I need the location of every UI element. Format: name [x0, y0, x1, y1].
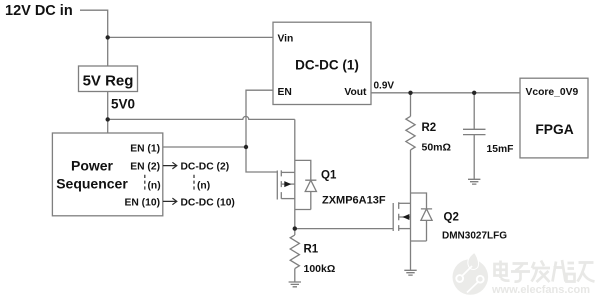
diode D2 body of Q2: [411, 193, 433, 241]
wire 5V0 horizontal with hop over EN line: [108, 116, 295, 119]
svg-text:Vin: Vin: [278, 34, 294, 45]
svg-text:Q1: Q1: [321, 170, 337, 182]
transistor Q1 channel: [280, 170, 282, 198]
watermark elecfans logo: [453, 253, 489, 295]
Power Sequencer box: [52, 133, 162, 216]
svg-text:EN (2): EN (2): [130, 161, 160, 172]
capacitor C bottom lead: [473, 135, 475, 180]
transistor Q1 body tap: [281, 183, 295, 185]
ground below Q2: [404, 270, 416, 275]
svg-text:Vout: Vout: [344, 87, 367, 98]
svg-text:12V DC in: 12V DC in: [5, 3, 73, 19]
svg-text:EN (10): EN (10): [125, 197, 160, 208]
wire Q1 drain to Q2 gate: [295, 228, 393, 230]
svg-text:15mF: 15mF: [487, 144, 514, 155]
svg-text:DC-DC (1): DC-DC (1): [295, 58, 359, 73]
svg-text:50mΩ: 50mΩ: [422, 141, 451, 153]
capacitor C plates: [463, 129, 486, 134]
node EN(1) junction: [244, 145, 248, 149]
node 5V0 junction: [106, 117, 110, 121]
wire Vin branch: [108, 36, 273, 38]
wire 5V Reg output down to Power Sequencer: [107, 92, 109, 134]
svg-text:DC-DC (10): DC-DC (10): [181, 197, 235, 208]
transistor Q1 source tap: [281, 198, 295, 200]
transistor Q2 arrow: [402, 214, 409, 220]
svg-text:Power: Power: [71, 158, 114, 174]
svg-text:FPGA: FPGA: [535, 122, 573, 137]
arrow to DC-DC (10): [163, 198, 177, 205]
svg-text:Q2: Q2: [444, 212, 459, 224]
transistor Q1 drain tap: [281, 171, 295, 173]
svg-text:EN: EN: [278, 87, 292, 98]
wire EN (1): [163, 146, 246, 148]
wire R1 to ground: [294, 269, 296, 282]
svg-text:0.9V: 0.9V: [374, 80, 395, 91]
svg-text:Vcore_0V9: Vcore_0V9: [526, 87, 579, 98]
node 12V/Vin junction: [106, 35, 110, 39]
transistor Q2 channel: [398, 202, 400, 231]
svg-text:DC-DC (2): DC-DC (2): [181, 161, 230, 172]
dashed ellipsis line outside Power Sequencer: [193, 175, 195, 192]
wire Vout 0.9V rail: [371, 92, 520, 94]
svg-text:(n): (n): [197, 180, 210, 191]
svg-text:R2: R2: [422, 122, 437, 134]
capacitor C 15mF top lead: [473, 93, 475, 130]
watermark chinese text 电子发烧友 (approximated strokes): [495, 260, 595, 282]
FPGA box: [520, 78, 588, 158]
svg-text:ZXMP6A13F: ZXMP6A13F: [322, 194, 386, 206]
transistor Q1 arrow: [284, 181, 291, 187]
5V regulator box: [79, 66, 138, 92]
wire R2 bottom to Q2 drain: [410, 150, 412, 270]
node R2 top junction: [408, 91, 412, 95]
wire 12V DC in to top node: [80, 10, 108, 66]
transistor Q2 body tap: [399, 216, 411, 218]
transistor Q2 drain tap: [399, 202, 411, 204]
arrow to DC-DC (2): [163, 162, 177, 169]
svg-text:5V Reg: 5V Reg: [83, 73, 134, 90]
svg-text:(n): (n): [148, 180, 161, 191]
node capacitor top junction: [472, 91, 476, 95]
ground below capacitor: [468, 179, 480, 184]
svg-text:5V0: 5V0: [111, 97, 135, 112]
svg-text:DMN3027LFG: DMN3027LFG: [442, 231, 507, 242]
resistor R2: [406, 116, 415, 150]
dashed ellipsis line inside Power Sequencer: [144, 175, 146, 192]
wire R2 top: [410, 93, 412, 117]
wire 5V0 down to Q1 source: [294, 119, 296, 172]
transistor Q2 source tap: [399, 228, 411, 230]
DC-DC (1) box: [273, 22, 371, 104]
wire EN chain vertical: [246, 90, 277, 172]
svg-text:Sequencer: Sequencer: [56, 176, 128, 192]
svg-text:EN (1): EN (1): [130, 143, 160, 154]
resistor R1: [290, 235, 299, 269]
node Q1 drain / R1 junction: [293, 226, 297, 230]
diode D1 body of Q1: [295, 160, 317, 209]
transistor Q1 gate bar: [276, 171, 278, 200]
svg-text:www.elecfans.com: www.elecfans.com: [491, 284, 590, 296]
svg-text:R1: R1: [304, 244, 319, 256]
wire Q1 drain-source vertical: [294, 172, 296, 235]
ground below R1: [289, 282, 301, 287]
transistor Q2 gate bar: [392, 203, 394, 231]
svg-text:100kΩ: 100kΩ: [304, 263, 336, 275]
